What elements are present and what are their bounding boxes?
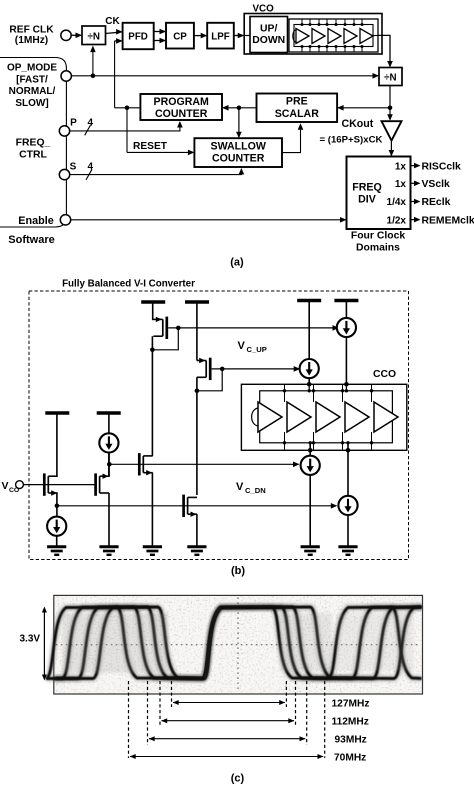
S input pin bbox=[59, 169, 69, 179]
current source CS1 stem bbox=[345, 301, 347, 319]
svg-text:4: 4 bbox=[88, 161, 94, 172]
VDD rail bar 1 bbox=[141, 300, 165, 303]
VCO ring inverter stage 1 bbox=[296, 29, 309, 44]
CCO stage rail tie bbox=[313, 384, 315, 402]
CCO bottom junction dots bbox=[308, 448, 313, 453]
svg-text:= (16P+S)xCK: = (16P+S)xCK bbox=[320, 135, 383, 146]
CCO junction dots top bbox=[307, 382, 312, 387]
svg-text:1/4x: 1/4x bbox=[387, 197, 407, 208]
svg-text:C_DN: C_DN bbox=[245, 486, 266, 495]
VDD rail bar 2 bbox=[185, 300, 209, 303]
svg-text:CCO: CCO bbox=[373, 369, 396, 380]
charge pump CP block U3 bbox=[166, 23, 194, 49]
current source CS3 stem bbox=[309, 443, 311, 456]
PRE SCALAR block bbox=[257, 94, 338, 123]
VCO ring inner rail box bbox=[294, 25, 373, 47]
RISCclk output wire bbox=[411, 165, 420, 167]
V-I converter dashed boundary bbox=[29, 291, 409, 560]
waveform interior smudge bbox=[62, 613, 168, 673]
CS1 output wire to CCO bbox=[345, 337, 347, 385]
dashed marker 112MHz right bbox=[295, 681, 297, 726]
VDD stem M1 bbox=[152, 302, 154, 320]
PROGRAM COUNTER block bbox=[140, 94, 222, 120]
scope graticule center vertical bbox=[237, 597, 239, 692]
wire CP to LPF bbox=[194, 35, 206, 37]
P input pin bbox=[59, 126, 69, 136]
P bus slash bbox=[85, 125, 91, 136]
svg-text:P: P bbox=[70, 118, 77, 129]
current source CS6 stem bbox=[108, 413, 110, 433]
M2 drain wire down to M6 bbox=[196, 377, 198, 495]
svg-text:CP: CP bbox=[173, 32, 187, 43]
svg-text:SCALAR: SCALAR bbox=[275, 108, 319, 120]
current source CS1 bbox=[337, 318, 356, 337]
wire LPF to VCO bbox=[234, 35, 243, 37]
scope display box bbox=[54, 595, 423, 694]
VCO outer box bbox=[244, 14, 382, 55]
CS6 output wire bbox=[108, 452, 110, 477]
M2 gate-drain tie wire bbox=[198, 369, 223, 391]
VDD rail bar B bbox=[334, 299, 358, 302]
M1 gate wire to current source CS1 bbox=[168, 327, 338, 329]
svg-text:FREQ_: FREQ_ bbox=[16, 138, 51, 149]
ground for CS5 bbox=[47, 545, 66, 548]
wire down into SWALLOW COUNTER top bbox=[238, 108, 240, 137]
VCO ring load tick bbox=[318, 19, 320, 25]
M2 drain junction bbox=[195, 389, 200, 394]
wire feedback to PRE SCALAR bbox=[338, 107, 390, 109]
junction at program counter input bbox=[125, 106, 130, 111]
junction to swallow counter bbox=[237, 106, 242, 111]
current source CS4 stem bbox=[347, 443, 349, 496]
M1 gate junction bbox=[176, 326, 181, 331]
svg-text:FREQ: FREQ bbox=[352, 182, 381, 194]
loop filter LPF block U4 bbox=[207, 23, 234, 49]
Enable wire to FREQ DIV bbox=[71, 219, 346, 221]
VCO ring inverter stage 4 bbox=[344, 29, 357, 44]
CCO inverter stage 2 bbox=[287, 402, 311, 432]
wire PRE SCALAR to PROGRAM COUNTER bbox=[223, 107, 256, 109]
CCO inverter stage 5 bbox=[374, 402, 398, 432]
127MHz trace bbox=[55, 607, 422, 679]
REF CLK input pin bbox=[61, 30, 71, 40]
dashed marker 127MHz left bbox=[171, 681, 173, 707]
svg-text:÷N: ÷N bbox=[384, 73, 396, 84]
Vco gate wire to M3 and M4 bbox=[23, 484, 95, 486]
svg-text:93MHz: 93MHz bbox=[335, 735, 367, 746]
M1 drain junction bbox=[150, 348, 155, 353]
RESET wire into SWALLOW COUNTER bbox=[127, 151, 193, 153]
VCO ring load tick bbox=[326, 19, 328, 25]
current source CS2 bbox=[300, 359, 319, 378]
V_C_DN wire to CS4 bbox=[57, 505, 336, 507]
127MHz period arrow bbox=[173, 702, 285, 704]
junction M3 source V_C_DN bbox=[55, 504, 60, 509]
M2 gate wire V_C_UP to current source CS2 bbox=[212, 368, 300, 370]
svg-text:Four Clock: Four Clock bbox=[351, 231, 405, 242]
svg-text:DIV: DIV bbox=[358, 194, 376, 206]
VCO ring load tick bbox=[335, 19, 337, 25]
svg-text:Enable: Enable bbox=[18, 215, 53, 227]
RESET wire down bbox=[126, 108, 128, 153]
svg-text:UP/: UP/ bbox=[260, 24, 277, 35]
feedback junction node bbox=[388, 106, 393, 111]
CCO feedback wrap bbox=[252, 408, 258, 426]
svg-text:NORMAL/: NORMAL/ bbox=[9, 86, 56, 97]
wire PFD to CP upper bbox=[154, 31, 165, 33]
current source CS3 bbox=[301, 456, 320, 475]
divider U5 divide-by-N box (prescaler divider) bbox=[379, 68, 402, 86]
svg-text:SWALLOW: SWALLOW bbox=[211, 140, 266, 152]
M6 source wire to ground bbox=[196, 514, 198, 547]
SWALLOW COUNTER block bbox=[194, 138, 282, 167]
CCO outer box bbox=[241, 384, 406, 450]
CS1 inner stem bbox=[345, 384, 347, 391]
svg-text:(a): (a) bbox=[230, 257, 244, 269]
junction M4 source / CS6 bbox=[107, 462, 112, 467]
svg-text:(b): (b) bbox=[231, 565, 245, 577]
current source CS2 stem bbox=[308, 301, 310, 360]
svg-text:DOWN: DOWN bbox=[252, 35, 285, 46]
dashed marker 93MHz right bbox=[306, 681, 308, 745]
svg-text:SLOW]: SLOW] bbox=[15, 98, 48, 109]
ground for CS3 bbox=[301, 545, 320, 548]
CCO stage rail tie bbox=[342, 384, 344, 402]
CCO stem dots inner bbox=[308, 389, 311, 392]
wire OP_MODE up to divider N1 bbox=[92, 47, 94, 76]
svg-text:CK: CK bbox=[105, 16, 120, 27]
70MHz trace bbox=[46, 607, 422, 679]
svg-text:[FAST/: [FAST/ bbox=[16, 74, 48, 85]
CS2 output wire to CCO bbox=[308, 378, 310, 384]
scope photo grain bbox=[55, 596, 422, 693]
CCO inverter stage 4 bbox=[345, 402, 369, 432]
svg-text:V: V bbox=[2, 480, 9, 492]
svg-text:REclk: REclk bbox=[422, 197, 451, 208]
CS3 to ground wire bbox=[309, 475, 311, 547]
svg-text:70MHz: 70MHz bbox=[334, 752, 366, 763]
wire divider N2 down to feedback node bbox=[389, 86, 391, 108]
VCO ring inverter stage 2 bbox=[312, 29, 325, 44]
93MHz period arrow bbox=[149, 738, 305, 740]
S bus slash bbox=[86, 169, 92, 180]
VCO ring oscillator outer box bbox=[289, 19, 378, 52]
svg-text:127MHz: 127MHz bbox=[332, 698, 370, 709]
svg-text:REF CLK: REF CLK bbox=[9, 25, 54, 36]
NMOS transistor M3 bbox=[43, 473, 46, 495]
M2 gate junction bbox=[220, 367, 225, 372]
svg-text:RESET: RESET bbox=[133, 141, 168, 152]
ground for M4 bbox=[99, 545, 118, 548]
CS2 inner stem bbox=[308, 384, 310, 391]
dashed marker 112MHz left bbox=[159, 681, 161, 726]
CCO stage rail tie bbox=[284, 384, 286, 402]
CCO inner rail box bbox=[260, 391, 393, 443]
svg-text:S: S bbox=[70, 161, 77, 172]
M3 source wire down bbox=[56, 493, 58, 506]
wire feedback node down to clock buffer bbox=[389, 108, 391, 120]
svg-text:COUNTER: COUNTER bbox=[212, 153, 265, 165]
NMOS transistor M5 bbox=[138, 453, 141, 475]
wire VCO output to divider N2 bbox=[378, 35, 390, 66]
NMOS transistor M6 bbox=[182, 495, 185, 517]
93MHz trace bbox=[55, 607, 422, 679]
tail wire to current source CS5 bbox=[56, 506, 58, 517]
VCO ring feedback wrap bbox=[293, 30, 297, 43]
svg-text:Fully Balanced V-I Converter: Fully Balanced V-I Converter bbox=[62, 279, 195, 290]
VCO ring load tick bbox=[301, 19, 303, 25]
112MHz period arrow bbox=[162, 720, 295, 722]
wire divider N1 to PFD (CK) bbox=[106, 32, 122, 34]
svg-text:4: 4 bbox=[88, 118, 94, 129]
waveform dark bands bbox=[55, 677, 206, 683]
svg-text:CTRL: CTRL bbox=[19, 149, 47, 160]
wire feedback into PROGRAM COUNTER bbox=[115, 107, 141, 109]
NMOS transistor M4 (source on top) bbox=[94, 473, 97, 495]
svg-text:PFD: PFD bbox=[128, 32, 148, 43]
VDD stem M3 drain bbox=[56, 413, 58, 477]
svg-text:COUNTER: COUNTER bbox=[155, 108, 208, 120]
waveform fuzz halo bbox=[46, 607, 422, 679]
VSclk output wire bbox=[411, 182, 420, 184]
CCO inverter stage 1 bbox=[258, 402, 282, 432]
svg-text:3.3V: 3.3V bbox=[20, 634, 41, 645]
svg-text:CKout: CKout bbox=[342, 118, 374, 130]
CCO inverter stage 3 bbox=[316, 402, 340, 432]
svg-text:VSclk: VSclk bbox=[422, 179, 451, 190]
wire feedback into PFD lower input bbox=[115, 40, 122, 42]
VDD stem M2 bbox=[196, 302, 198, 361]
svg-text:REMEMclk: REMEMclk bbox=[422, 215, 474, 226]
CS5 to ground wire bbox=[56, 536, 58, 547]
clock buffer triangle bbox=[382, 121, 402, 140]
svg-text:OP_MODE: OP_MODE bbox=[7, 63, 57, 74]
VCO ring inverter stage 3 bbox=[328, 29, 341, 44]
PMOS transistor M2 (diode connected) bbox=[209, 358, 212, 380]
svg-text:(c): (c) bbox=[231, 773, 245, 785]
ground for CS4 bbox=[338, 545, 357, 548]
OP_MODE pin bbox=[61, 71, 71, 81]
current source CS4 bbox=[338, 496, 357, 515]
wire REF pin to divider N1 bbox=[71, 34, 81, 36]
REclk output wire bbox=[411, 201, 420, 203]
wire ring output bbox=[373, 35, 378, 37]
svg-text:V: V bbox=[238, 340, 246, 352]
svg-text:Software: Software bbox=[8, 234, 54, 246]
ground for M6 bbox=[187, 545, 206, 548]
wire into UP/DOWN box bbox=[244, 35, 250, 37]
VCO ring load tick bbox=[361, 19, 363, 25]
M4 source wire up bbox=[108, 452, 110, 477]
CS4 to ground wire bbox=[347, 515, 349, 547]
VCO ring load tick bbox=[353, 19, 355, 25]
dashed marker 70MHz right bbox=[324, 681, 326, 758]
70MHz period arrow bbox=[130, 756, 323, 758]
M4 drain wire to ground bbox=[108, 493, 110, 547]
PMOS transistor M1 (diode connected) bbox=[165, 317, 168, 339]
S bus wire bbox=[70, 169, 242, 174]
svg-text:÷N: ÷N bbox=[87, 31, 99, 42]
software control boundary rounded box bbox=[0, 58, 66, 228]
divider U1 divide-by-N box bbox=[82, 26, 106, 45]
scope graticule center horizontal bbox=[56, 644, 421, 646]
svg-text:1x: 1x bbox=[395, 161, 407, 172]
CCO stage rail tie bbox=[371, 384, 373, 402]
svg-text:1x: 1x bbox=[395, 179, 407, 190]
ground for M5 bbox=[143, 545, 162, 548]
wire SWALLOW to PRE SCALAR bbox=[282, 124, 301, 152]
bias wire to current source CS3 bbox=[109, 463, 299, 465]
VCO ring load tick bbox=[344, 19, 346, 25]
Enable pin bbox=[60, 215, 70, 225]
svg-text:PRE: PRE bbox=[286, 96, 308, 108]
svg-text:112MHz: 112MHz bbox=[332, 717, 369, 728]
VCO ring load tick bbox=[309, 19, 311, 25]
M1 drain wire down to M5 bbox=[151, 336, 153, 456]
UP/DOWN control box bbox=[250, 17, 288, 53]
P bus wire bbox=[70, 122, 180, 131]
svg-text:LPF: LPF bbox=[211, 32, 230, 43]
FREQ DIV block bbox=[347, 157, 411, 230]
wire buffer to FREQ DIV bbox=[390, 141, 392, 156]
112MHz trace bbox=[55, 607, 422, 679]
svg-text:Domains: Domains bbox=[356, 243, 400, 254]
VDD rail bar 4 bbox=[97, 411, 121, 414]
svg-text:V: V bbox=[236, 481, 244, 493]
dashed marker 70MHz left bbox=[128, 681, 130, 758]
junction on OP_MODE wire bbox=[91, 74, 96, 79]
current source CS6 bbox=[99, 433, 118, 452]
OP_MODE wire to dividers bbox=[71, 75, 378, 77]
current source CS5 bbox=[47, 517, 66, 536]
dashed marker 93MHz left bbox=[147, 681, 149, 745]
3.3V measurement arrow bbox=[43, 609, 45, 679]
dashed marker 127MHz right bbox=[285, 681, 287, 707]
REMEMclk output wire bbox=[411, 219, 420, 221]
Vco input pin bbox=[16, 481, 24, 489]
PFD block U2 bbox=[123, 23, 154, 49]
svg-text:RISCclk: RISCclk bbox=[422, 161, 461, 172]
svg-text:C_UP: C_UP bbox=[247, 345, 267, 354]
M1 gate-drain tie wire bbox=[153, 328, 178, 350]
VDD rail bar 3 bbox=[45, 411, 69, 414]
VCO ring inverter stage 5 bbox=[360, 29, 373, 44]
wire PFD to CP lower bbox=[154, 40, 165, 42]
feedback vertical wire to PFD bbox=[114, 41, 116, 108]
svg-text:1/2x: 1/2x bbox=[387, 215, 407, 226]
VDD rail bar A bbox=[297, 299, 321, 302]
M5 source wire to ground bbox=[151, 473, 153, 547]
svg-text:(1MHz): (1MHz) bbox=[15, 35, 48, 46]
svg-text:PROGRAM: PROGRAM bbox=[154, 96, 209, 108]
